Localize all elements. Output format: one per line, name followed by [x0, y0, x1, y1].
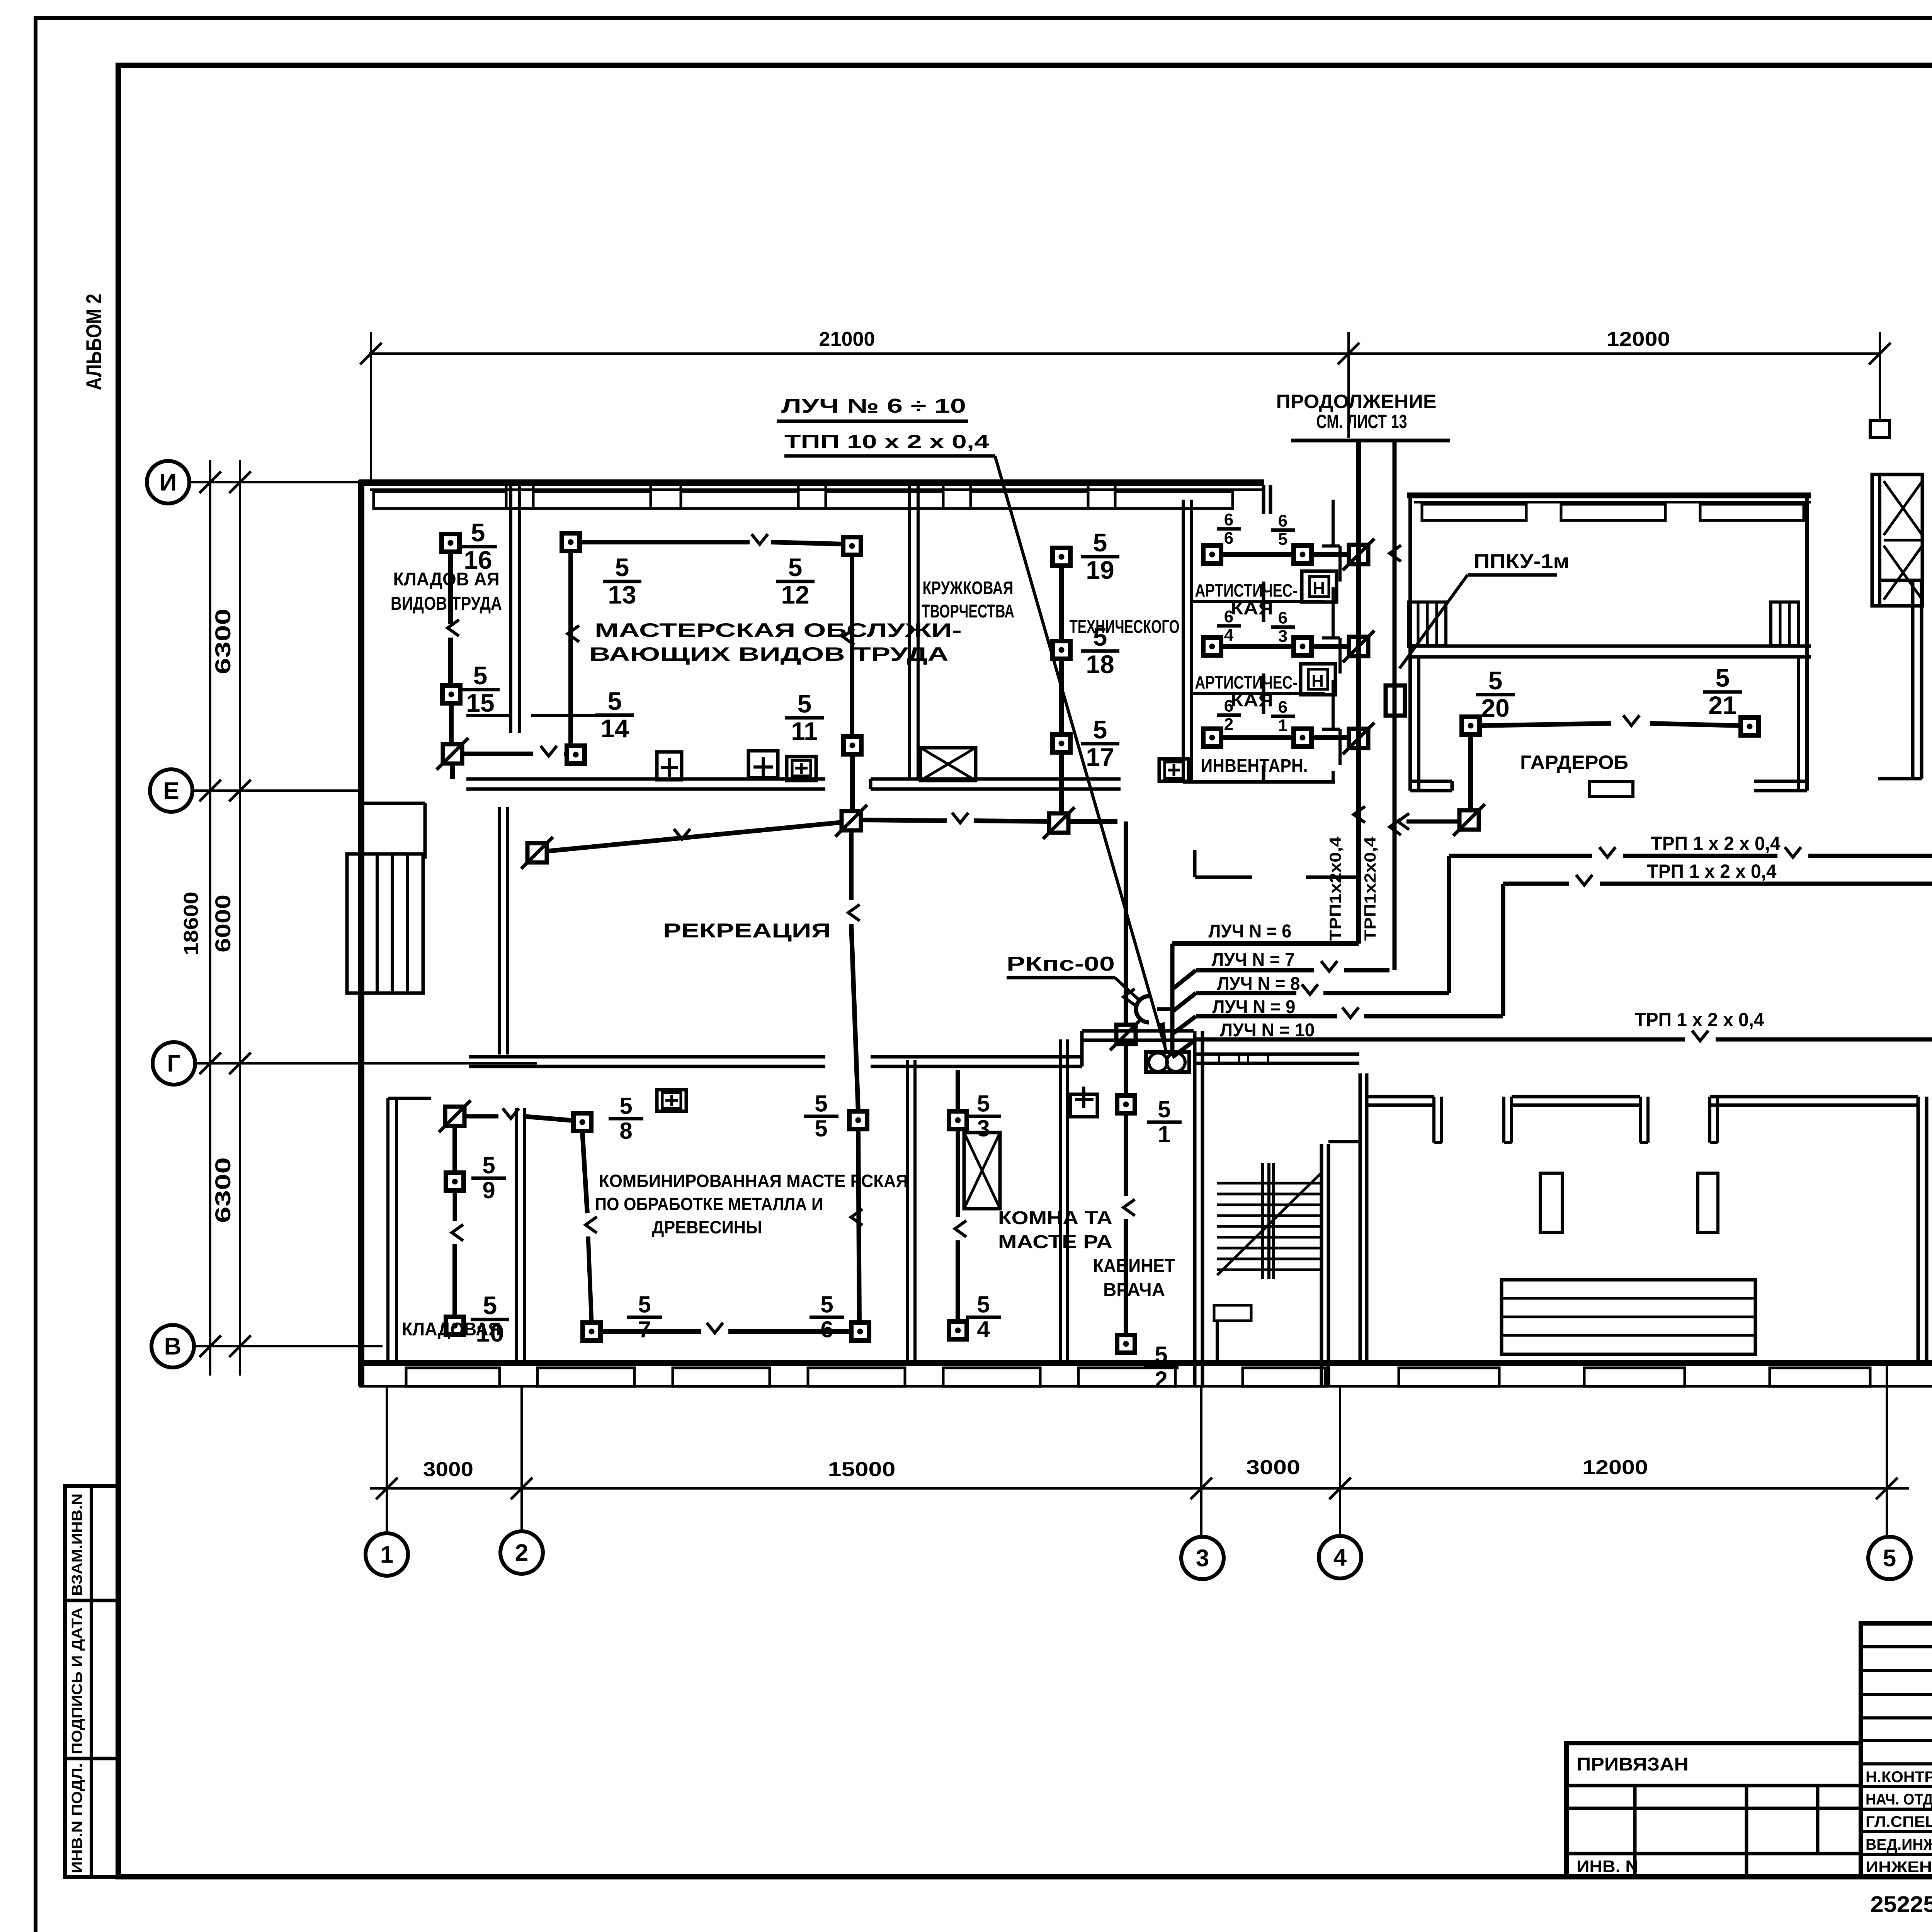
axis row И	[147, 461, 189, 503]
wire down to kabinet vracha junction	[1124, 821, 1128, 1025]
window bottom wall 2	[537, 1368, 634, 1386]
junction kabinet vracha wall	[1110, 1019, 1142, 1050]
detector 5/21	[1741, 718, 1759, 735]
svg-text:5: 5	[1093, 715, 1107, 744]
plus box 2 double framed	[787, 757, 816, 781]
detector 6/5	[1294, 546, 1311, 563]
fan riser	[1170, 944, 1175, 1052]
vestibule east wall	[1917, 1097, 1920, 1364]
svg-text:5: 5	[483, 1291, 497, 1320]
svg-text:ТЕХНИЧЕСКОГО: ТЕХНИЧЕСКОГО	[1070, 617, 1180, 637]
interior partition tekhnicheskogo/artisticheskaya	[1182, 500, 1185, 782]
left dimension line 18600	[209, 460, 211, 1376]
stairwell north opening walls	[1193, 850, 1197, 877]
svg-text:ПОДПИСЬ И ДАТА: ПОДПИСЬ И ДАТА	[69, 1607, 85, 1754]
svg-text:5: 5	[473, 661, 488, 690]
rkps twin circle box	[1146, 1052, 1189, 1072]
svg-text:3000: 3000	[423, 1458, 473, 1481]
trunk cable A (luch 6)	[1356, 440, 1361, 944]
door jamb row3	[1322, 728, 1340, 731]
detector 5/16	[442, 534, 459, 552]
axis leader lines left	[189, 481, 361, 483]
wire 6/1 to cable junction	[1311, 735, 1349, 740]
svg-text:СМ. ЛИСТ 13: СМ. ЛИСТ 13	[1316, 411, 1407, 432]
luch8 riser to trp line1	[1447, 856, 1451, 993]
window bottom wall 4	[808, 1368, 905, 1386]
garderob bottom-left wall return	[1410, 780, 1452, 783]
window bottom wall 6	[1078, 1368, 1175, 1386]
partition kombinir/komnata mastera	[906, 1060, 909, 1363]
label 5/13	[603, 553, 641, 609]
svg-text:АЛЬБОМ 2: АЛЬБОМ 2	[82, 294, 106, 390]
svg-text:КОМНА ТА: КОМНА ТА	[998, 1208, 1112, 1228]
svg-text:5: 5	[815, 1116, 827, 1141]
plus box near 5/8	[657, 1090, 686, 1111]
bottom axis circles	[366, 1533, 408, 1576]
svg-text:5: 5	[788, 553, 803, 582]
svg-text:ГЛ.СПЕЦ: ГЛ.СПЕЦ	[1866, 1813, 1932, 1830]
window bottom wall 3	[673, 1368, 770, 1386]
svg-text:21: 21	[1708, 691, 1736, 719]
label 6/5	[1271, 512, 1295, 549]
svg-text:4: 4	[1333, 1544, 1347, 1571]
svg-text:12: 12	[781, 580, 809, 609]
detector 6/4	[1203, 638, 1221, 655]
svg-text:5: 5	[482, 1152, 495, 1178]
wire 5/17 down to corridor	[1059, 752, 1064, 813]
svg-text:ВЗАМ.ИНВ.N: ВЗАМ.ИНВ.N	[69, 1493, 85, 1596]
svg-text:15: 15	[466, 689, 494, 717]
garderob right wall	[1805, 495, 1809, 791]
vestibule door jambs 1	[1432, 1097, 1435, 1143]
svg-text:Г: Г	[167, 1051, 180, 1077]
call point H room1	[1302, 571, 1337, 602]
axis row Г	[153, 1042, 195, 1085]
stair rail	[1261, 1163, 1264, 1279]
svg-text:5: 5	[977, 1090, 990, 1116]
garderob bottom-right wall return	[1754, 780, 1807, 783]
plus box 0 left	[657, 752, 682, 780]
window garderob 3	[1700, 504, 1804, 520]
partition komnata mastera/kabinet vracha	[1059, 1039, 1062, 1363]
wire to 5/15	[448, 638, 453, 685]
svg-text:ЛУЧ № 6 ÷ 10: ЛУЧ № 6 ÷ 10	[781, 395, 966, 417]
svg-text:РЕКРЕАЦИЯ: РЕКРЕАЦИЯ	[663, 920, 831, 942]
detector 5/18	[1053, 641, 1070, 659]
svg-text:6: 6	[1224, 529, 1233, 548]
leader arrow to rkps	[995, 456, 1166, 1051]
wire 5/20 to v	[1480, 723, 1611, 726]
svg-text:2: 2	[1224, 715, 1233, 734]
plus box above 5/3	[1070, 1094, 1097, 1117]
svg-text:3: 3	[977, 1116, 990, 1141]
wire below mid junction down to 5/5	[849, 830, 854, 900]
detector 5/15	[442, 685, 460, 703]
svg-text:ГАРДЕРОБ: ГАРДЕРОБ	[1520, 752, 1628, 773]
detector 5/5	[849, 1111, 867, 1129]
luch 6 branch	[1172, 941, 1359, 946]
label 5/20	[1476, 666, 1515, 722]
svg-text:1: 1	[1278, 716, 1287, 735]
left exterior wall	[358, 480, 364, 1386]
cable junction row2	[1343, 631, 1374, 662]
junction below 5/20	[1453, 804, 1485, 836]
window bottom wall 8	[1399, 1368, 1499, 1386]
detector 5/8	[573, 1113, 591, 1131]
wire 5/20 down	[1468, 735, 1473, 811]
svg-text:5: 5	[977, 1291, 990, 1317]
svg-text:ТРП1х2х0,4: ТРП1х2х0,4	[1361, 836, 1379, 941]
label 6/4	[1217, 607, 1241, 645]
corridor left inner wall	[498, 807, 501, 1054]
svg-text:2: 2	[515, 1540, 528, 1566]
wire 5/18-5/17	[1059, 659, 1064, 735]
corridor wire to 5/17 junction	[974, 821, 1049, 821]
svg-text:ПРОДОЛЖЕНИЕ: ПРОДОЛЖЕНИЕ	[1276, 391, 1437, 412]
svg-text:ТПП 10 х 2 х 0,4: ТПП 10 х 2 х 0,4	[784, 431, 989, 452]
svg-text:1: 1	[1158, 1121, 1170, 1147]
label 6/1	[1271, 698, 1295, 735]
label 5/16	[459, 518, 497, 574]
detector 5/19	[1053, 548, 1070, 566]
stair diagonal cut	[1217, 1173, 1321, 1275]
stair treads	[1217, 1182, 1321, 1185]
wire 5/7 to v	[600, 1329, 701, 1334]
svg-text:КАЯ: КАЯ	[1231, 690, 1273, 710]
window bottom wall 7	[1243, 1368, 1325, 1386]
wire 5/3 up to wall	[956, 1070, 960, 1111]
svg-text:Н.КОНТР.: Н.КОНТР.	[1866, 1769, 1932, 1786]
svg-text:11: 11	[791, 717, 818, 745]
window top wall 5	[971, 492, 1088, 509]
call point H room2	[1301, 664, 1335, 695]
svg-text:КРУЖКОВАЯ: КРУЖКОВАЯ	[923, 578, 1014, 599]
entry steps block at left wall	[347, 854, 423, 993]
svg-text:18600: 18600	[180, 892, 202, 956]
svg-text:12000: 12000	[1607, 328, 1670, 350]
hatched pier left	[1409, 602, 1446, 645]
detector 5/20	[1462, 717, 1480, 735]
wire 5/6 up to 5/5	[858, 1129, 859, 1323]
label 5/1	[1147, 1096, 1182, 1147]
svg-text:5: 5	[1158, 1096, 1170, 1122]
label 5/19	[1081, 528, 1119, 584]
detector 5/10	[446, 1317, 464, 1335]
garderob inner left wall below rail	[1417, 657, 1420, 791]
garderob left wall	[1408, 495, 1412, 791]
window bottom wall 5	[943, 1368, 1040, 1386]
garderob inner rail wall	[1407, 645, 1811, 648]
wire 6/2-6/1	[1221, 735, 1294, 740]
top dimension line 21000 / 12000	[369, 352, 1881, 355]
svg-text:5: 5	[471, 518, 485, 547]
svg-text:6: 6	[1278, 698, 1287, 717]
svg-text:Е: Е	[163, 778, 179, 804]
luch 10 branch	[1172, 1039, 1196, 1057]
small box on axis 5 extension	[1870, 420, 1889, 437]
corridor south wall step up	[1080, 1031, 1084, 1066]
trp line 2 to list 6	[1503, 882, 1569, 886]
svg-text:5: 5	[615, 553, 629, 582]
c-shaped wall right of garderob	[1911, 580, 1915, 779]
label 5/9	[471, 1152, 506, 1203]
detector 5/4	[949, 1321, 967, 1339]
wire 5/8 down	[582, 1131, 587, 1213]
interior partition masterskaya/kruzhkovaya	[908, 485, 911, 779]
bottom exterior wall (axis В)	[359, 1360, 1932, 1366]
cloak strip right	[1698, 1173, 1718, 1232]
bottom dimension line 3000/15000/3000/12000	[370, 1487, 1909, 1490]
svg-text:ВРАЧА: ВРАЧА	[1103, 1280, 1165, 1300]
svg-text:ТРП 1 х 2 х 0,4: ТРП 1 х 2 х 0,4	[1651, 833, 1781, 854]
corridor junction mid	[835, 805, 867, 837]
label 5/10	[471, 1291, 509, 1347]
svg-text:6: 6	[1278, 609, 1287, 628]
svg-text:ДРЕВЕСИНЫ: ДРЕВЕСИНЫ	[652, 1217, 762, 1237]
wire v to 5/6	[728, 1329, 851, 1334]
svg-text:5: 5	[619, 1093, 632, 1119]
junction corner kladovaya lower	[439, 1100, 471, 1132]
luch 7 branch	[1172, 970, 1196, 989]
svg-text:6: 6	[1224, 607, 1233, 626]
svg-text:ИНВ. N: ИНВ. N	[1577, 1857, 1638, 1876]
hatched pier right	[1771, 602, 1799, 645]
detector 5/1	[1117, 1095, 1135, 1113]
lift shaft with X braces	[1872, 474, 1922, 606]
corridor south wall west segment	[469, 1055, 825, 1059]
svg-text:ЛУЧ N = 10: ЛУЧ N = 10	[1220, 1020, 1315, 1041]
svg-text:ТРП 1 х 2 х 0,4: ТРП 1 х 2 х 0,4	[1647, 861, 1777, 882]
partition kladovaya2/kombinir	[515, 1108, 518, 1363]
svg-text:19: 19	[1086, 556, 1114, 584]
label 6/2	[1217, 697, 1241, 734]
door jamb row2	[1322, 636, 1340, 639]
label 5/12	[776, 553, 815, 609]
label 5/8	[609, 1093, 643, 1144]
wire from 5/11 through wall	[850, 754, 855, 811]
svg-text:15000: 15000	[828, 1458, 896, 1481]
detector 5/17	[1053, 735, 1070, 752]
svg-text:20: 20	[1481, 694, 1509, 722]
luch 8 branch	[1172, 993, 1196, 1012]
wire 5/3 to 5/4	[956, 1240, 960, 1321]
wire down to 5/9	[452, 1125, 457, 1173]
svg-text:ВИДОВ ТРУДА: ВИДОВ ТРУДА	[391, 594, 502, 614]
svg-text:ИНЖЕН.: ИНЖЕН.	[1866, 1859, 1932, 1876]
svg-text:АРТИСТИЧЕС-: АРТИСТИЧЕС-	[1195, 580, 1298, 600]
detector 5/14	[567, 746, 585, 764]
svg-text:5: 5	[1155, 1342, 1167, 1367]
detector 5/12	[843, 537, 861, 555]
wall pieces near rkps	[1194, 1053, 1359, 1056]
detector 5/11	[844, 736, 861, 754]
svg-text:НАЧ. ОТД.: НАЧ. ОТД.	[1866, 1791, 1932, 1808]
svg-text:13: 13	[608, 580, 636, 609]
garderob block top wall	[1407, 493, 1811, 498]
junction below 5/17	[1043, 807, 1075, 839]
wire corner to v	[462, 752, 533, 756]
svg-text:3: 3	[1278, 627, 1287, 646]
stairwell west wall	[1193, 1031, 1197, 1386]
svg-text:ЛУЧ N = 8: ЛУЧ N = 8	[1217, 974, 1300, 994]
wire 5/12 down to 5/11	[850, 555, 854, 736]
corridor wire west	[546, 822, 842, 851]
label 5/3	[966, 1090, 1001, 1141]
window bottom wall 10	[1770, 1368, 1870, 1386]
wire 6/6-6/5	[1221, 552, 1294, 557]
ppku junction box on cable	[1386, 685, 1405, 716]
svg-text:5: 5	[638, 1291, 651, 1317]
svg-text:ТВОРЧЕСТВА: ТВОРЧЕСТВА	[922, 601, 1014, 622]
window top wall 3	[681, 492, 798, 509]
trunk cable B (luch 7)	[1393, 440, 1397, 970]
window bottom wall 1	[406, 1368, 500, 1386]
axis row Е	[150, 769, 192, 812]
svg-text:КАЯ: КАЯ	[1231, 598, 1273, 618]
svg-text:21000: 21000	[819, 328, 875, 350]
svg-text:6: 6	[1278, 512, 1287, 531]
svg-text:5: 5	[820, 1291, 833, 1317]
svg-text:18: 18	[1086, 650, 1114, 679]
svg-text:5: 5	[1093, 528, 1107, 557]
top wall piers	[506, 483, 533, 509]
window garderob 2	[1561, 504, 1665, 520]
label 5/11	[785, 689, 824, 745]
stair lower landing piece	[1214, 1305, 1251, 1321]
svg-text:17: 17	[1086, 743, 1114, 771]
svg-text:КАБИНЕТ: КАБИНЕТ	[1093, 1256, 1175, 1276]
window bottom wall 9	[1584, 1368, 1685, 1386]
detector 5/2	[1117, 1335, 1135, 1353]
vent shaft X lower band	[964, 1133, 1000, 1209]
svg-text:ЛУЧ N = 7: ЛУЧ N = 7	[1212, 950, 1295, 970]
svg-text:5: 5	[798, 689, 812, 718]
label 5/4	[966, 1291, 1001, 1342]
door jamb row1	[1322, 544, 1340, 548]
label 5/15	[461, 661, 500, 717]
svg-text:ТРП1х2х0,4: ТРП1х2х0,4	[1326, 836, 1344, 941]
artistic rooms divider 2	[1192, 692, 1325, 695]
svg-text:КЛАДОВ АЯ: КЛАДОВ АЯ	[393, 569, 500, 590]
detector 6/2	[1203, 729, 1221, 747]
wire 5/19-5/18	[1059, 566, 1064, 641]
garderob inner right wall below rail	[1797, 657, 1800, 791]
svg-text:КОМБИНИРОВАННАЯ МАСТЕ РСКАЯ: КОМБИНИРОВАННАЯ МАСТЕ РСКАЯ	[599, 1171, 908, 1191]
svg-text:ПО ОБРАБОТКЕ МЕТАЛЛА И: ПО ОБРАБОТКЕ МЕТАЛЛА И	[595, 1194, 823, 1214]
svg-text:8: 8	[619, 1118, 632, 1144]
axis row В	[151, 1325, 194, 1367]
detector 5/3	[949, 1111, 967, 1129]
vestibule door jambs 2	[1639, 1097, 1642, 1143]
svg-text:ВЕД.ИНЖ: ВЕД.ИНЖ	[1866, 1836, 1932, 1853]
svg-text:АРТИСТИЧЕС-: АРТИСТИЧЕС-	[1195, 672, 1298, 692]
svg-text:В: В	[164, 1333, 182, 1360]
wire v to 5/12	[771, 542, 843, 544]
svg-text:КЛАДОВАЯ: КЛАДОВАЯ	[402, 1319, 501, 1340]
vent shaft with X top band	[920, 748, 976, 781]
svg-text:ППКУ-1м: ППКУ-1м	[1474, 550, 1570, 573]
label 5/14	[595, 687, 634, 743]
detector 5/7	[583, 1323, 600, 1340]
wire 5/13 down to 5/14	[568, 551, 573, 746]
kladovaya deeper south wall	[359, 802, 425, 805]
svg-text:6: 6	[1224, 697, 1233, 716]
svg-text:6: 6	[820, 1316, 833, 1342]
svg-text:5: 5	[608, 687, 622, 715]
svg-text:1: 1	[380, 1542, 393, 1568]
detector 6/6	[1203, 546, 1221, 563]
svg-text:6: 6	[1224, 510, 1233, 529]
luch9 riser to trp line2	[1501, 884, 1505, 1016]
left dimension line segments 6300/6000/6300	[239, 460, 241, 1376]
svg-text:12000: 12000	[1582, 1456, 1648, 1479]
detector 5/13	[562, 533, 580, 551]
wire v to 5/21	[1650, 723, 1741, 726]
title block left privyazan box	[1566, 1743, 1861, 1877]
exterior top wall (axis И)	[359, 480, 1264, 486]
svg-text:3: 3	[1196, 1545, 1209, 1572]
label 5/18	[1081, 622, 1119, 679]
window top wall 6	[1115, 492, 1233, 509]
svg-text:ИНВ.N ПОДЛ.: ИНВ.N ПОДЛ.	[69, 1763, 85, 1873]
plus box 1 on corridor wall	[748, 751, 778, 778]
wire corner into wall	[450, 763, 455, 779]
plus box at artistic left wall	[1159, 759, 1189, 781]
svg-text:ЛУЧ N = 9: ЛУЧ N = 9	[1213, 997, 1296, 1017]
window top wall 1	[374, 492, 506, 509]
wire 6/5 to cable junction	[1311, 552, 1349, 557]
wire to 5/10	[452, 1244, 457, 1317]
label 5/5	[804, 1090, 838, 1141]
label 6/6	[1217, 510, 1241, 548]
svg-text:6300: 6300	[211, 609, 235, 674]
svg-text:5: 5	[1716, 663, 1730, 692]
list 13 terminal line	[1291, 439, 1450, 442]
lower-left room west wall	[386, 1098, 389, 1363]
label 5/7	[627, 1291, 662, 1342]
inventarn bottom wall	[1183, 780, 1335, 784]
left stamp column boxes	[65, 1486, 118, 1877]
trp line 1 to list 6	[1449, 854, 1592, 858]
window top wall 4	[826, 492, 943, 509]
vestibule north wall segments	[1367, 1095, 1434, 1099]
svg-text:4: 4	[1224, 626, 1234, 645]
wire 5/13 to v	[580, 540, 750, 544]
cloak strip left	[1540, 1173, 1562, 1232]
artistic block right wall	[1332, 500, 1335, 547]
wire 5/16 down	[448, 552, 453, 624]
label 5/6	[810, 1291, 844, 1342]
rkps semicircle	[1136, 996, 1149, 1022]
wire 5/1 to 5/2	[1124, 1219, 1128, 1335]
wire 5/15 down	[449, 703, 454, 745]
svg-text:3000: 3000	[1246, 1456, 1300, 1479]
detector 6/3	[1294, 638, 1311, 655]
svg-text:Н: Н	[1313, 579, 1326, 598]
label 5/17	[1081, 715, 1119, 771]
svg-text:9: 9	[482, 1177, 495, 1203]
svg-text:ТРП 1 х 2 х 0,4: ТРП 1 х 2 х 0,4	[1635, 1009, 1764, 1031]
svg-text:5: 5	[815, 1090, 827, 1116]
cable junction row3	[1343, 723, 1374, 754]
svg-text:25225-02 51: 25225-02 51	[1871, 1892, 1932, 1917]
corridor north wall segments	[466, 777, 825, 781]
stair door head	[1328, 1140, 1360, 1143]
title block central signature table	[1861, 1623, 1932, 1877]
window garderob 1	[1422, 504, 1526, 520]
svg-text:4: 4	[977, 1316, 990, 1342]
svg-text:5: 5	[1278, 530, 1287, 549]
